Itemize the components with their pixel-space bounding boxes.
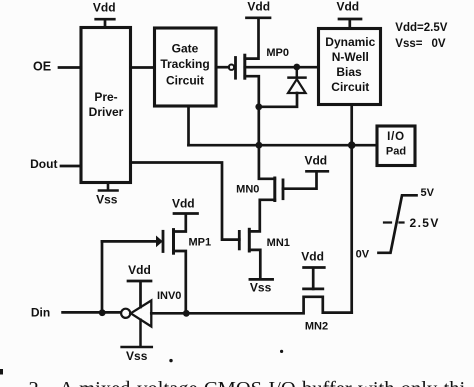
svg-text:Vdd: Vdd: [301, 250, 324, 264]
svg-text:Vss: Vss: [126, 349, 148, 363]
svg-text:Dout: Dout: [30, 157, 57, 171]
svg-text:Pre-: Pre-: [94, 90, 117, 104]
svg-text:Vdd=2.5V: Vdd=2.5V: [395, 22, 447, 34]
svg-text:Dynamic: Dynamic: [325, 35, 375, 49]
svg-text:Vdd: Vdd: [128, 263, 151, 277]
svg-text:Tracking: Tracking: [160, 57, 209, 71]
svg-text:OE: OE: [33, 60, 51, 74]
svg-text:Circuit: Circuit: [166, 74, 204, 88]
svg-text:MN0: MN0: [236, 183, 259, 195]
svg-text:Vdd: Vdd: [172, 196, 195, 210]
svg-text:Vdd: Vdd: [93, 1, 116, 15]
svg-text:0V: 0V: [432, 38, 446, 50]
svg-text:Gate: Gate: [172, 41, 199, 55]
svg-text:I/O: I/O: [387, 131, 405, 143]
svg-text:Bias: Bias: [336, 65, 362, 79]
svg-text:0V: 0V: [356, 248, 370, 260]
svg-text:MP1: MP1: [188, 237, 211, 249]
svg-text:5V: 5V: [421, 187, 435, 199]
svg-text:Vdd: Vdd: [336, 0, 359, 14]
svg-text:MN1: MN1: [267, 237, 290, 249]
svg-text:Vdd: Vdd: [304, 154, 327, 168]
svg-text:2.: 2.: [29, 378, 44, 387]
svg-text:Vdd: Vdd: [247, 0, 270, 14]
svg-text:N-Well: N-Well: [332, 50, 369, 64]
svg-text:Circuit: Circuit: [331, 80, 369, 94]
svg-text:MP0: MP0: [266, 47, 289, 59]
svg-text:2.5V: 2.5V: [410, 216, 440, 230]
svg-text:Vss: Vss: [250, 280, 272, 294]
svg-text:Vss=: Vss=: [395, 38, 422, 50]
svg-text:A mixed-voltage CMOS I/O buffe: A mixed-voltage CMOS I/O buffer with onl…: [59, 378, 465, 387]
svg-text:Pad: Pad: [386, 146, 406, 158]
svg-text:MN2: MN2: [305, 321, 328, 333]
svg-text:Din: Din: [31, 306, 50, 320]
svg-text:INV0: INV0: [157, 290, 181, 302]
svg-text:Vss: Vss: [96, 193, 118, 207]
svg-text:Driver: Driver: [89, 105, 124, 119]
